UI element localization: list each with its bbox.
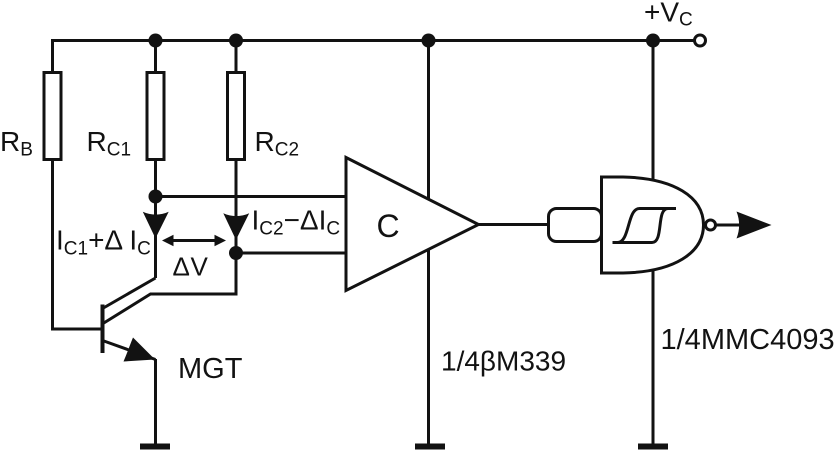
svg-text:RC1: RC1 xyxy=(87,126,132,161)
resistor RB xyxy=(44,73,61,160)
wire R_C1 bottom lead to node A xyxy=(154,160,157,197)
node A dot (RC1 / comparator + input) xyxy=(149,190,163,204)
wire node A down to collector1 bend xyxy=(154,197,157,279)
wire comparator inverting input xyxy=(236,252,346,255)
wire node B down, left, collector2 diagonal xyxy=(103,253,236,324)
wire collector1 diagonal xyxy=(103,278,156,309)
delta-V double arrow xyxy=(162,235,226,246)
ground (comparator) xyxy=(415,444,445,450)
current arrow IC1 on RC1 wire xyxy=(143,212,169,236)
transistor emitter arrowhead xyxy=(124,338,156,362)
wire comparator output to box xyxy=(479,223,550,226)
wire R_B branch: top lead, left vertical, base feed xyxy=(51,39,54,72)
svg-text:1/4βM339: 1/4βM339 xyxy=(441,346,566,377)
node dot rail-RC2 xyxy=(229,34,243,48)
comparator U1 triangle xyxy=(346,158,479,291)
svg-text:IC1+Δ IC: IC1+Δ IC xyxy=(56,225,151,260)
output arrowhead xyxy=(737,212,772,239)
wire comparator supply vertical xyxy=(427,41,430,445)
svg-text:+VC: +VC xyxy=(644,0,693,31)
transistor base bar xyxy=(101,305,105,354)
ground (emitter) xyxy=(140,444,170,450)
node dot rail-comparator supply xyxy=(422,34,436,48)
input-tie box before NAND xyxy=(549,209,602,242)
wire R_C2 top lead xyxy=(235,39,238,72)
resistor RC2 xyxy=(228,73,245,160)
svg-text:RB: RB xyxy=(0,126,33,161)
wire emitter vertical to ground xyxy=(154,359,157,444)
svg-text:IC2−ΔIC: IC2−ΔIC xyxy=(252,205,341,240)
ground (NAND) xyxy=(638,444,668,450)
resistor RC1 xyxy=(147,73,164,160)
node B dot (RC2 / comparator - input) xyxy=(229,246,243,260)
svg-text:RC2: RC2 xyxy=(255,126,300,161)
terminal +Vc open circle xyxy=(695,35,706,46)
wire R_C2 bottom lead to node B xyxy=(235,160,238,253)
svg-text:MGT: MGT xyxy=(178,353,243,385)
wire R_C1 top lead xyxy=(154,39,157,72)
wire NAND output to arrow xyxy=(716,224,740,227)
svg-text:C: C xyxy=(377,208,400,244)
node dot rail-RC1 xyxy=(149,34,163,48)
NAND inversion bubble xyxy=(706,220,716,230)
NAND schmitt hysteresis symbol xyxy=(613,209,677,243)
svg-text:1/4MMC4093: 1/4MMC4093 xyxy=(661,324,834,356)
node dot rail-NAND supply xyxy=(646,34,660,48)
wire comparator noninverting input xyxy=(156,195,347,198)
wire NAND supply vertical xyxy=(652,41,655,445)
current arrow IC2 on RC2 wire xyxy=(223,213,249,237)
transistor emitter diagonal xyxy=(103,341,156,360)
NAND gate U2 body xyxy=(602,177,704,273)
svg-text:ΔV: ΔV xyxy=(173,252,209,282)
wire top rail +Vc xyxy=(53,39,695,42)
